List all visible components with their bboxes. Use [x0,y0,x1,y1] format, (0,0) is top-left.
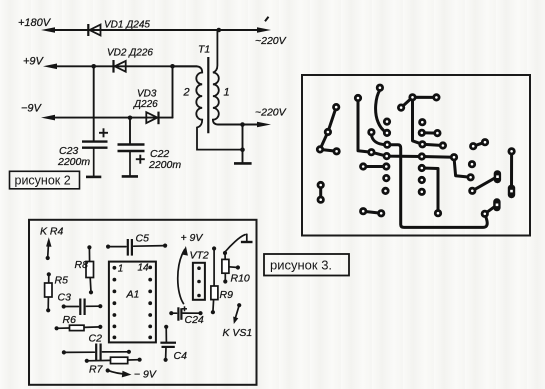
resistor R8 leads [88,247,90,261]
pad hole (485,142.2) [482,140,487,145]
svg-text:− 9V: − 9V [134,369,157,381]
node junction 220V [240,122,245,127]
trace diag to pad [472,177,497,191]
pcb board outline [302,75,530,236]
resistor R10 body [222,259,229,273]
solder dot (100.3,326.9) [98,325,102,329]
svg-text:~220V: ~220V [255,107,287,119]
pad hole (371.4,152.2) [369,150,374,155]
arrow +9V [43,64,57,70]
solder dot (214.1,248.5) [212,246,216,250]
arrow +9V head [182,246,188,256]
trace center pair horizontal [363,165,386,168]
pad hole (470.6,177.3) [468,175,473,180]
pad hole (387,132.9) [384,130,389,135]
pin dot VT2 (199,281.5) [197,280,201,284]
capacitor C4 leads [165,327,167,343]
trace curve D-E [371,135,387,145]
trace curve A-B [376,90,387,133]
pad hole (421.8,132.8) [419,130,424,135]
pad hole (385.5,190.9) [383,188,388,193]
capacitor C3 leads [64,306,79,308]
pad hole (320,149.4) [317,147,322,152]
resistor R10 leads [224,253,226,259]
wire K VS1 line [235,305,239,319]
svg-text:2200m: 2200m [148,159,181,171]
pad hole (422.3,122.2) [420,120,425,125]
pad hole (401.1,107.6) [398,105,403,110]
solder dot (225,253) [223,251,227,255]
pad hole (436.4,97.4) [434,95,439,100]
trace long rail [358,98,471,177]
pad hole (421.8,168) [419,165,424,170]
svg-text:2: 2 [183,87,190,99]
svg-text:C24: C24 [185,314,204,326]
wire C22 vertical lead [129,118,131,145]
caption box рисунок 2 [10,171,80,189]
resistor R9 body [211,286,218,300]
trace right drop [510,151,513,191]
pad hole (421.8,156.5) [419,154,424,159]
svg-text:рисунок 2: рисунок 2 [15,174,71,188]
capacitor C2 leads [64,351,95,353]
pcb pads [317,85,514,217]
node junction ground [240,147,245,152]
solder dot (128.9,351.8) [127,350,131,354]
ic A1 body [109,262,156,343]
svg-text:C2: C2 [89,333,103,345]
solder dot (89.4,247.4) [87,245,91,249]
solder dot (166.2,326.8) [164,325,168,329]
pcb fat pad 3 [493,198,500,211]
pad hole (437.4,133.1) [435,130,440,135]
pin dot VT2 (199,295.5) [197,294,201,298]
solder dot (239.2,305.2) [237,303,241,307]
solder dot (225.3,281.5) [223,279,227,283]
solder dot (91,292.3) [89,290,93,294]
wire K R4 arrow line [47,242,50,258]
svg-text:1: 1 [224,87,230,99]
svg-text:−9V: −9V [21,103,43,115]
pin dot (150.2,337.4) [148,336,152,340]
capacitor C2 plates [96,344,100,362]
trace right upper [401,97,436,107]
node junction +9V left [91,64,96,69]
pin dot (114.4,315) [113,313,117,317]
pad hole (472.3,190.8) [470,188,475,193]
solder dot (56.6,328.3) [55,326,59,330]
svg-text:14: 14 [138,263,150,274]
pin dot (150.2,279.6) [148,278,152,282]
trace left pair vertical [319,185,322,200]
diode VD1 Д245 [88,24,100,36]
pad hole (327.9,132) [325,129,330,134]
pin dot VT2 (199,268.2) [197,266,201,270]
arrow K R4 head [46,237,51,247]
wire +180V rail [50,29,262,31]
svg-text:Д226: Д226 [133,99,158,110]
pad hole (472,164.2) [469,162,474,167]
svg-text:VD3: VD3 [137,89,157,100]
wire -9V rail [50,117,173,119]
solder dot (86.8,360.8) [85,359,89,363]
pin dot (114.4,267.8) [113,266,117,270]
node junction -9V [128,116,133,121]
pad hole (412.5,97.3) [410,95,415,100]
svg-text:2200m: 2200m [57,156,90,168]
pad hole (484.8,213.8) [482,211,487,216]
solder dot (63.9,352.4) [62,350,66,354]
pad hole (421.8,180) [419,177,424,182]
svg-text:R7: R7 [89,364,104,376]
wire VD3 cathode to +9V rail [172,66,174,117]
pin dot (150.2,291.4) [148,290,152,294]
resistor R5 body [45,283,52,297]
pad hole (387.2,144.7) [385,142,390,147]
pin dot (114.4,279.6) [113,278,117,282]
trace left chain [320,107,337,151]
solder dot (48.8,274.3) [47,272,51,276]
solder dot (237.9,267.5) [236,265,240,269]
svg-text:A1: A1 [126,289,140,301]
solder dot (171.3,313.2) [169,311,173,315]
svg-text:T1: T1 [198,44,210,56]
pad hole (387,121.6) [384,119,389,124]
pad hole (363.2,166.5) [361,164,366,169]
pad hole (371.4,132.2) [369,130,374,135]
node junction top rail [217,28,222,33]
pad hole (454,157.2) [451,155,456,160]
svg-text:K VS1: K VS1 [223,327,253,339]
resistor R6 body [70,325,85,330]
diode VD3 Д226 [146,112,158,125]
resistor R7 body [111,357,128,363]
resistor R8 body [86,262,94,278]
svg-text:R5: R5 [55,275,69,287]
pad hole (381.2,213.3) [379,211,384,216]
pad hole (386.3,166.5) [384,164,389,169]
pad hole (421.8,191.8) [419,189,424,194]
arrow -9V [41,115,55,121]
transistor VT2 body [193,263,205,300]
solder dot (108.1,246.6) [106,245,110,249]
pad hole (379.9,87.7) [377,85,382,90]
pad hole (358,98) [355,95,360,100]
resistor R6 leads [57,327,70,329]
solder dot (63.7,306.5) [62,304,66,308]
svg-text:C5: C5 [136,233,150,245]
pin dot (114.4,337.4) [113,336,117,340]
svg-text:R9: R9 [220,289,234,301]
pin dot (150.2,267.4) [148,266,152,270]
solder dot (200.5,313.2) [198,311,202,315]
caption box рисунок 3 [264,254,349,276]
wire C23 vertical lead [93,66,95,141]
pad hole (473.2,146.2) [471,144,476,149]
solder dot (48.2,310.3) [46,308,50,312]
solder dot (139.6,359.7) [138,358,142,362]
svg-text:R8: R8 [75,259,89,271]
capacitor C24 plates [178,307,181,320]
capacitor C4 plates [160,343,176,347]
wire -9V arrow line [108,370,128,374]
capacitor C24 plus [182,306,187,311]
pad hole (320.7,185) [318,182,323,187]
solder dot (100.3,306.2) [98,304,102,308]
resistor R7 leads [87,359,111,361]
svg-text:+180V: +180V [18,17,52,29]
capacitor C23 [82,128,108,177]
placement board outline [29,220,257,385]
arrow +180V [41,27,55,33]
pad hole (511.6,151.3) [509,149,514,154]
svg-text:R10: R10 [231,272,250,284]
svg-text:R6: R6 [63,314,77,326]
transformer T1 [173,30,243,150]
pad hole (336.2,107.1) [334,104,339,109]
wire +9V rail [52,65,197,67]
trace elbow drop [422,168,438,213]
solder dot (165.1,245.6) [163,244,167,248]
solder dot (107.7,370.5) [106,368,110,372]
trace big L [387,145,497,228]
svg-text:C4: C4 [174,350,188,362]
solder dot (47.7,258) [46,256,50,260]
wire 220V lower lead [218,124,262,126]
svg-text:+ 9V: + 9V [181,232,204,244]
pcb fat pad 1 [494,170,501,183]
wire hook curve [225,235,245,252]
hook bar [241,241,253,243]
pin dot (114.4,291.4) [113,290,117,294]
pad hole (336.6,151.3) [334,149,339,154]
arrow -9V head [122,371,132,378]
svg-text:рисунок 3.: рисунок 3. [270,258,332,273]
pin dot (114.4,326.4) [113,325,117,329]
solder dot (165.6,359.8) [164,358,168,362]
trace bottom pair [363,211,381,213]
pad hole (386.7,156.1) [384,153,389,158]
svg-text:~220V: ~220V [255,35,287,47]
trace right vertical [413,97,443,145]
svg-text:VT2: VT2 [190,249,209,261]
svg-text:1: 1 [118,264,124,275]
svg-text:VD2 Д226: VD2 Д226 [107,48,153,59]
diode VD2 Д226 [114,60,126,73]
resistor R9 lead line [213,249,215,287]
capacitor C24 leads [171,312,176,314]
capacitor C22 [118,145,145,177]
node junction +9V right [170,64,175,69]
tick mark top right [265,17,269,21]
pad hole (422.4,144.3) [420,142,425,147]
pin dot (150.2,326.4) [148,325,152,329]
pin dot (150.2,315) [148,313,152,317]
arrow ~220V top [257,27,271,33]
capacitor C5 plates [128,239,132,256]
pin dot (150.2,303.2) [148,301,152,305]
arrow K VS1 head [233,317,238,325]
pad hole (442.9,145.5) [440,143,445,148]
capacitor C3 plates [80,299,84,316]
wire ground drop [242,125,244,164]
wire +9V arc [178,250,185,304]
pcb fat pad 2 [508,185,515,199]
trace pair mid [422,131,438,134]
resistor R5 leads [48,274,50,283]
pin dot (114.4,303.2) [113,301,117,305]
ground bar transformer [234,162,252,165]
svg-text:K R4: K R4 [40,226,64,238]
svg-text:+9V: +9V [23,56,45,68]
pad hole (320.7,199.7) [318,197,323,202]
trace short diag [473,142,485,146]
capacitor C5 leads [108,246,126,248]
svg-text:C3: C3 [58,292,72,304]
pad hole (363.2,211.2) [361,209,366,214]
svg-text:VD1 Д245: VD1 Д245 [104,20,150,31]
pad hole (386.3,178.1) [384,175,389,180]
pad hole (438,213.2) [435,211,440,216]
arrow ~220V bottom [257,122,271,128]
solder dot (212.9,312.2) [211,310,215,314]
